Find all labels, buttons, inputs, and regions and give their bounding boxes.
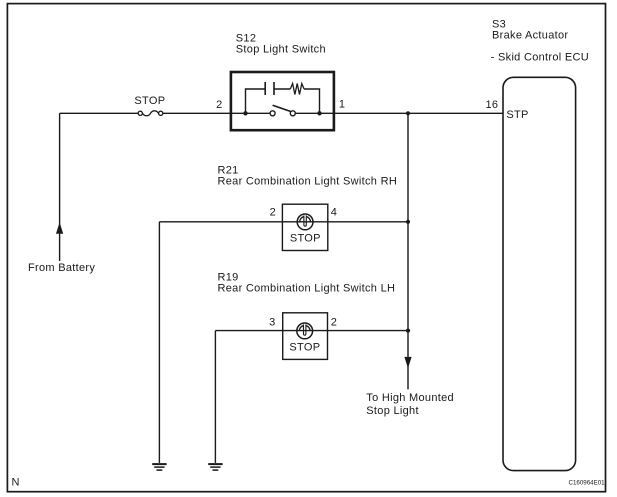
node: S12 left junction (243, 111, 247, 115)
ground G2 (208, 464, 222, 470)
wire: R19 ground drop (214, 331, 216, 463)
svg-text:R21: R21 (218, 165, 239, 177)
svg-text:N: N (12, 477, 20, 489)
switch contact (inside S12) (270, 105, 295, 116)
svg-text:From Battery: From Battery (28, 262, 95, 274)
node: R21 junction (406, 220, 410, 224)
svg-text:C160964E01: C160964E01 (569, 480, 606, 487)
wire: fuse to S12 pin 2 (163, 112, 270, 114)
ground G1 (152, 464, 166, 470)
svg-text:2: 2 (331, 317, 337, 329)
svg-text:1: 1 (339, 99, 345, 111)
svg-text:- Skid Control ECU: - Skid Control ECU (491, 52, 589, 64)
svg-text:STOP: STOP (289, 341, 320, 353)
wire: battery feed horizontal to fuse (60, 112, 139, 114)
lamp R19 box (283, 313, 328, 360)
fuse STOP (138, 111, 163, 116)
node: main branch junction (406, 111, 410, 115)
svg-text:To High Mounted: To High Mounted (366, 392, 454, 404)
svg-text:Rear Combination Light Switch: Rear Combination Light Switch LH (218, 283, 396, 295)
node: S12 right junction (317, 111, 321, 115)
wire: R21 ground drop (158, 222, 160, 463)
to high mounted stop light arrow (405, 357, 411, 367)
ECU S3 box (503, 77, 576, 470)
resistor (inside S12) (290, 84, 304, 95)
svg-text:3: 3 (269, 317, 275, 329)
svg-text:Brake Actuator: Brake Actuator (492, 30, 568, 42)
wire: S12 left riser (246, 89, 266, 113)
svg-text:16: 16 (485, 99, 498, 111)
from battery arrow (56, 223, 62, 233)
node: R19 junction (406, 329, 410, 333)
svg-text:Stop Light: Stop Light (366, 405, 419, 417)
lamp R21 box (282, 204, 327, 250)
wire: capacitor to resistor (274, 88, 290, 90)
svg-text:Stop Light Switch: Stop Light Switch (236, 44, 326, 56)
svg-text:4: 4 (331, 207, 337, 219)
svg-text:STOP: STOP (290, 232, 321, 244)
svg-text:Rear Combination Light Switch: Rear Combination Light Switch RH (218, 176, 398, 188)
svg-text:2: 2 (270, 207, 276, 219)
svg-text:STP: STP (506, 109, 528, 121)
wire: resistor to right riser (304, 89, 319, 113)
svg-text:2: 2 (216, 99, 222, 111)
svg-text:STOP: STOP (134, 95, 165, 107)
switch S12 box (231, 72, 334, 130)
wire: R21 row (159, 221, 408, 223)
wire: S12 pin 1 to S3 pin 16 (295, 112, 503, 114)
svg-text:R19: R19 (218, 272, 239, 284)
capacitor (inside S12) (265, 82, 274, 95)
wire: branch vertical to high mounted stop light (407, 113, 409, 389)
lamp R21 bulb (297, 214, 313, 230)
wire: battery feed vertical (59, 113, 61, 261)
lamp R19 bulb (297, 323, 313, 339)
wire: R19 row (215, 330, 408, 332)
